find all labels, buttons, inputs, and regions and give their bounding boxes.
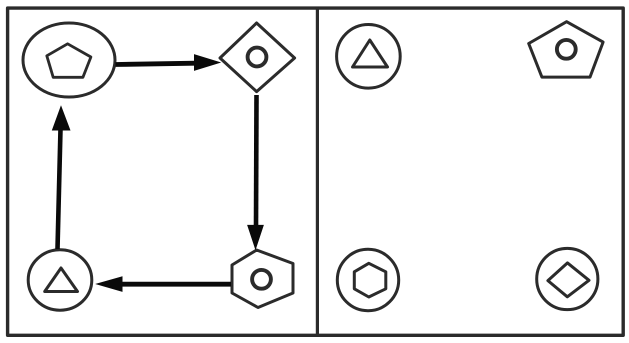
pentagon inside ellipse — [47, 44, 91, 78]
right panel: pentagon with circle (top-right) — [529, 22, 603, 77]
arrow diamond to hexagon (down) — [254, 95, 259, 226]
arrow circle to ellipse (up) — [58, 129, 61, 249]
diamond inside bottom-right circle — [548, 263, 589, 297]
circle inside pentagon — [557, 40, 576, 59]
arrow hexagon to circle (left) — [120, 282, 231, 287]
circle inside hexagon — [252, 270, 271, 289]
hexagon inside bottom-left circle — [354, 263, 386, 297]
right panel: circle with triangle (top-left) — [337, 25, 401, 89]
triangle inside circle — [45, 268, 78, 292]
left panel: hexagon node — [232, 250, 293, 308]
right panel: circle with hexagon (bottom-left) — [337, 249, 398, 310]
right panel: circle with diamond (bottom-right) — [537, 248, 598, 309]
triangle inside top-left circle — [353, 40, 388, 67]
left panel: ellipse node — [23, 23, 115, 97]
panel divider — [316, 8, 319, 335]
left panel: circle node — [28, 250, 92, 310]
circle inside diamond — [248, 48, 267, 67]
left panel: diamond node — [220, 23, 295, 92]
arrow ellipse to diamond (right) — [116, 63, 197, 64]
